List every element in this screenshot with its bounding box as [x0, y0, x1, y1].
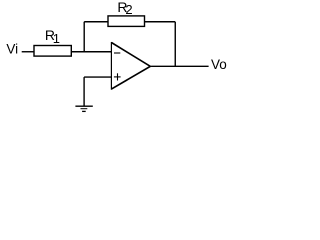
svg-text:2: 2 — [125, 2, 132, 17]
resistor R1 — [34, 46, 71, 57]
ground — [75, 106, 92, 111]
wire feedback right vertical — [174, 22, 176, 67]
resistor R2 — [108, 16, 145, 27]
label R2 — [117, 0, 132, 17]
op-amp U1 — [111, 42, 150, 90]
wire non-inverting input — [84, 76, 111, 78]
svg-text:1: 1 — [53, 31, 60, 46]
label R1 — [45, 27, 60, 46]
op-amp plus sign — [114, 73, 121, 80]
wire R1 to op-amp inverting input — [71, 51, 111, 53]
svg-text:Vo: Vo — [211, 57, 227, 72]
op-amp minus sign — [114, 52, 120, 54]
svg-text:Vi: Vi — [6, 42, 18, 57]
wire output — [151, 65, 209, 67]
wire feedback top right — [145, 21, 176, 23]
wire Vi to R1 — [22, 51, 34, 53]
wire to ground — [83, 77, 85, 106]
wire feedback left vertical — [83, 22, 85, 52]
wire feedback top left — [84, 21, 108, 23]
